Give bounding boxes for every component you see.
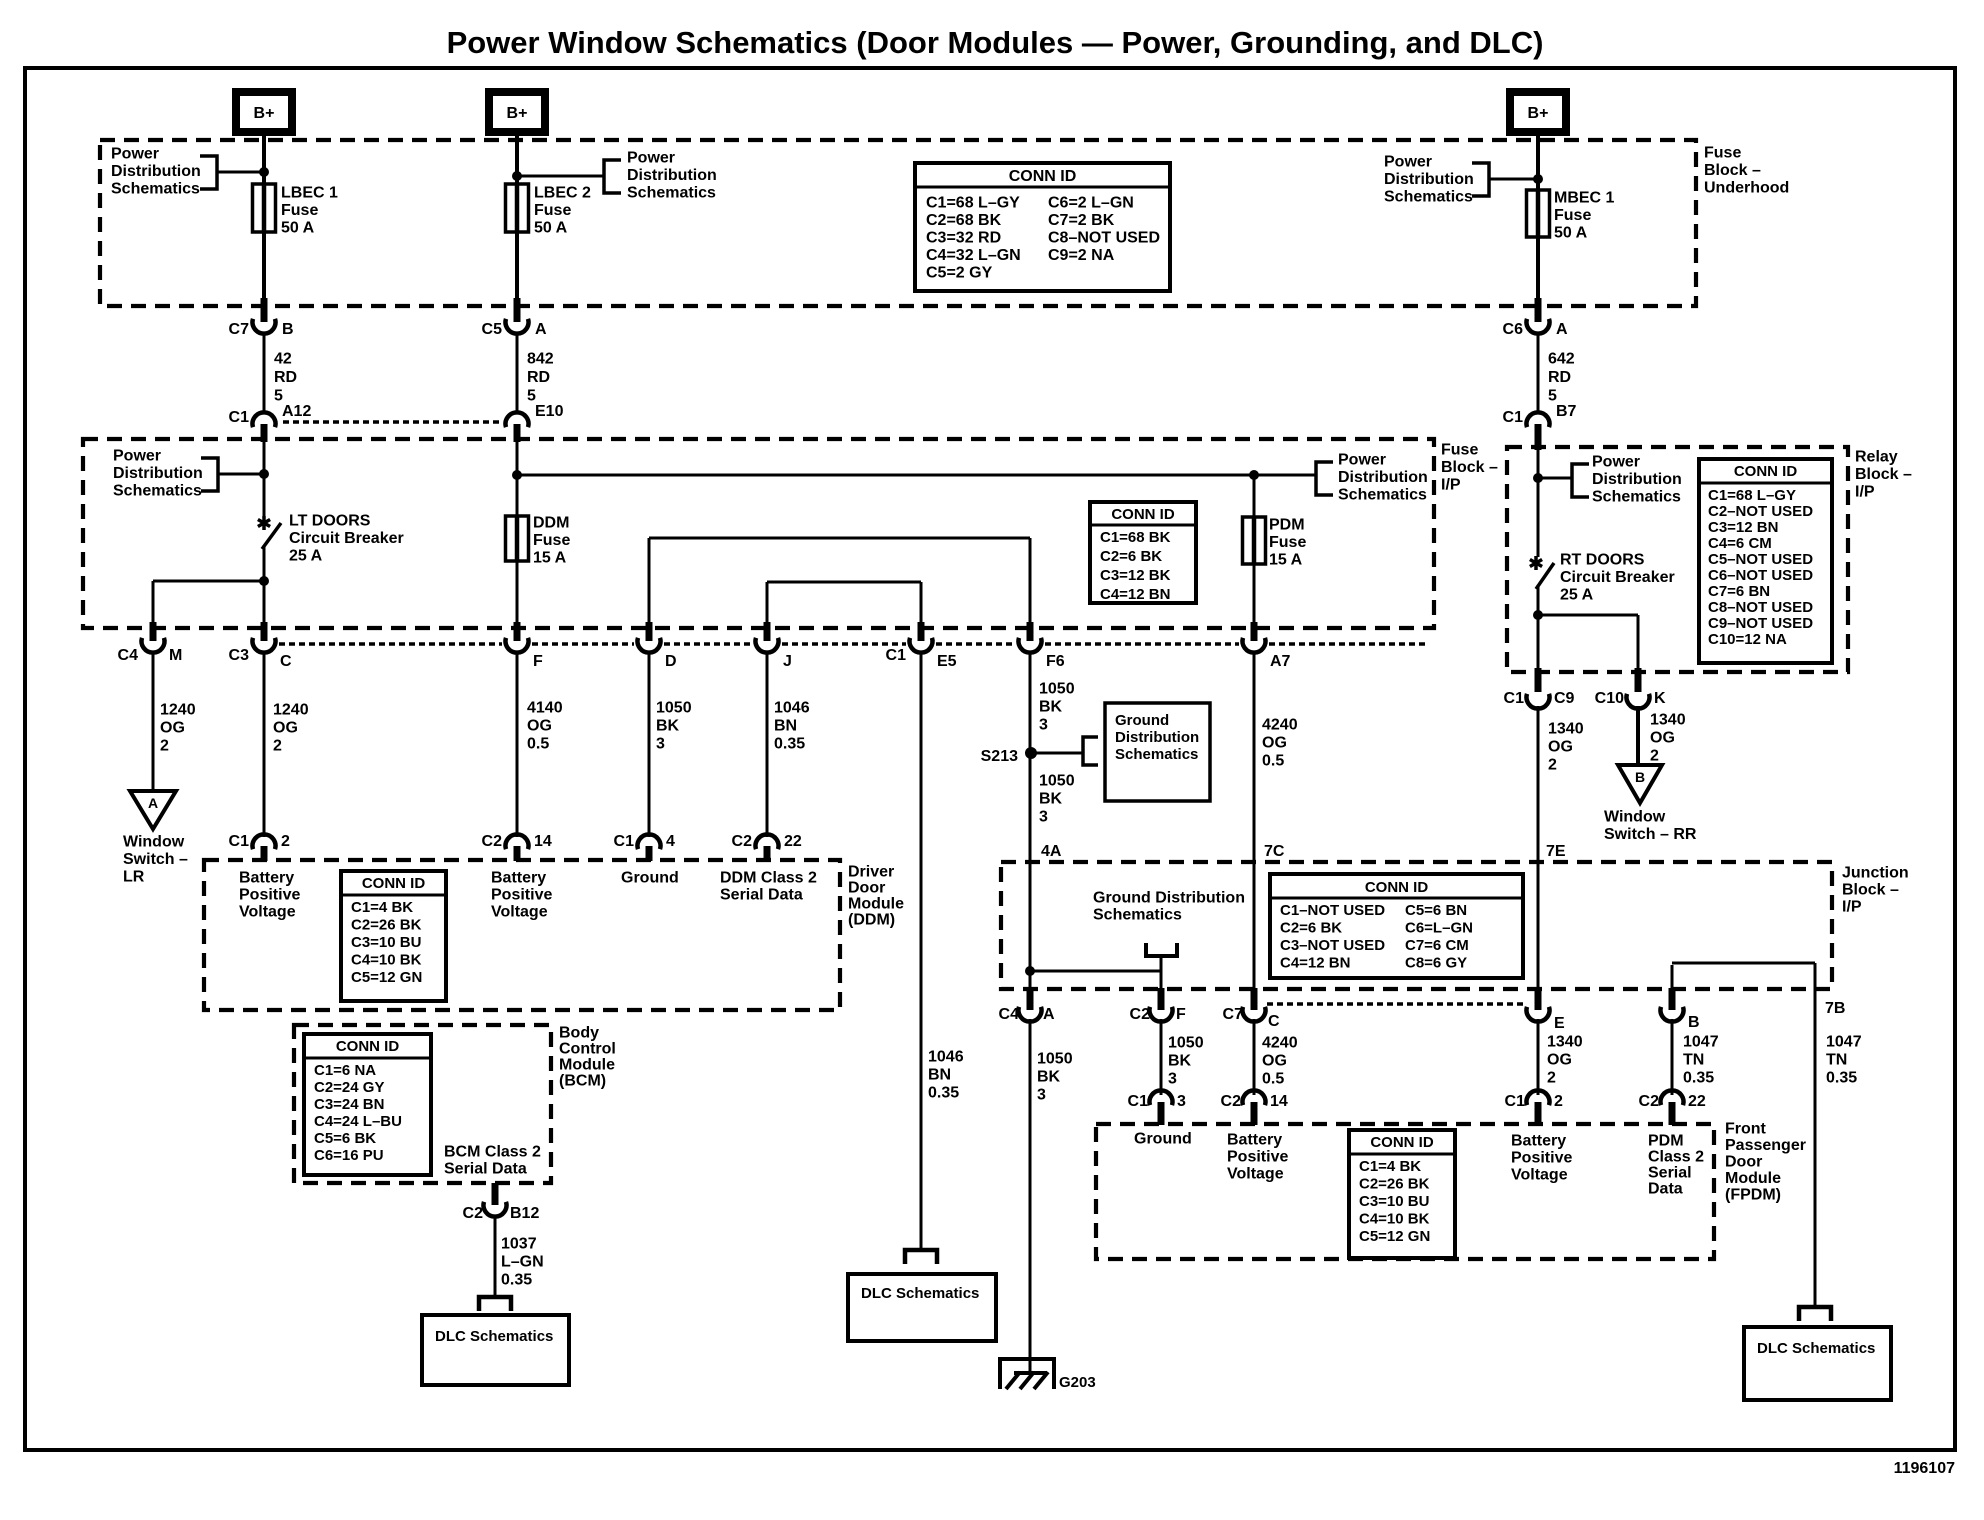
wire window switch LR column (152, 581, 155, 624)
connector F (506, 638, 529, 653)
svg-text:F: F (533, 653, 543, 670)
connector C1/C9 (1526, 694, 1549, 709)
svg-text:C7: C7 (1223, 1006, 1244, 1023)
svg-text:DLC Schematics: DLC Schematics (1757, 1340, 1875, 1357)
svg-text:0.35: 0.35 (1826, 1070, 1857, 1087)
svg-text:2: 2 (273, 738, 282, 755)
svg-text:C3–NOT USED: C3–NOT USED (1280, 937, 1385, 954)
svg-text:Ground: Ground (621, 870, 679, 887)
svg-text:Distribution: Distribution (1592, 471, 1682, 488)
svg-text:OG: OG (1262, 735, 1287, 752)
svg-text:25 A: 25 A (289, 548, 323, 565)
wire S213 to ground distribution bracket (1031, 752, 1083, 755)
svg-text:LT DOORS: LT DOORS (289, 513, 371, 530)
svg-text:C2=24 GY: C2=24 GY (314, 1079, 384, 1096)
wire 4140 OG 0.5 (516, 651, 519, 837)
svg-text:BK: BK (1037, 1069, 1061, 1086)
bracket for right PDS label (1472, 163, 1489, 196)
wire serial loop right leg to connector E5 (920, 582, 923, 624)
connector A7 (1243, 638, 1266, 653)
svg-text:C4=32 L–GN: C4=32 L–GN (926, 247, 1021, 264)
svg-text:Junction: Junction (1842, 865, 1909, 882)
wire LT DOORS column to connector C3 (263, 581, 266, 624)
svg-text:OG: OG (527, 718, 552, 735)
svg-text:5: 5 (527, 388, 536, 405)
svg-text:(FPDM): (FPDM) (1725, 1187, 1781, 1204)
svg-text:Distribution: Distribution (1384, 171, 1474, 188)
wire 1050 BK 3 (DDM ground) (648, 651, 651, 837)
svg-text:Voltage: Voltage (491, 904, 548, 921)
wire B+1 to connector C7 (262, 132, 266, 300)
svg-text:C6=16 PU: C6=16 PU (314, 1147, 384, 1164)
wire RT DOORS to window switch RR column (1538, 614, 1638, 617)
svg-text:Voltage: Voltage (239, 904, 296, 921)
svg-text:A: A (1556, 321, 1568, 338)
bracket for mid PDS label (604, 160, 621, 193)
svg-text:Schematics: Schematics (1093, 907, 1182, 924)
svg-text:Positive: Positive (491, 887, 552, 904)
svg-text:Module: Module (848, 896, 904, 913)
DLC schematics box (left) (422, 1315, 569, 1385)
svg-text:(BCM): (BCM) (559, 1073, 606, 1090)
conn id table relay block (1699, 459, 1832, 663)
svg-text:C2: C2 (463, 1205, 484, 1222)
svg-text:J: J (783, 653, 792, 670)
wire breaker to window switch LR column (153, 580, 264, 583)
svg-text:C4: C4 (999, 1006, 1020, 1023)
svg-text:CONN ID: CONN ID (336, 1038, 400, 1055)
svg-text:15 A: 15 A (533, 550, 567, 567)
svg-text:7E: 7E (1546, 843, 1566, 860)
svg-text:C4=6 CM: C4=6 CM (1708, 535, 1772, 552)
svg-text:1340: 1340 (1650, 712, 1686, 729)
svg-text:Positive: Positive (1227, 1149, 1288, 1166)
svg-text:K: K (1654, 690, 1666, 707)
svg-text:B+: B+ (507, 105, 528, 122)
svg-text:Window: Window (1604, 809, 1666, 826)
svg-text:BN: BN (928, 1067, 951, 1084)
svg-text:Distribution: Distribution (1115, 729, 1199, 746)
svg-text:C1: C1 (1503, 409, 1524, 426)
junction node on LBEC2 column (512, 171, 522, 181)
wire B+2 to connector C5 (515, 132, 519, 300)
svg-text:Fuse: Fuse (281, 202, 318, 219)
svg-text:Power: Power (111, 146, 159, 163)
wire 1046 BN 0.35 (E5 to DLC) (920, 651, 923, 1250)
svg-text:B12: B12 (510, 1205, 539, 1222)
svg-text:1050: 1050 (1037, 1051, 1073, 1068)
svg-text:2: 2 (1650, 748, 1659, 765)
junction node DDM column (512, 470, 522, 480)
wire F column junction (1160, 971, 1163, 990)
wire DDM serial loop horizontal (767, 581, 921, 584)
svg-text:C5=12 GN: C5=12 GN (1359, 1228, 1430, 1245)
svg-text:C1=4 BK: C1=4 BK (351, 899, 413, 916)
off-page connector to DLC (BCM) (479, 1297, 511, 1311)
circuit breaker RT DOORS 25A (1537, 450, 1540, 557)
svg-text:PDM: PDM (1269, 517, 1305, 534)
svg-text:A: A (1043, 1006, 1055, 1023)
connector C1/B7 (1526, 412, 1549, 427)
svg-text:C1=68 L–GY: C1=68 L–GY (1708, 487, 1796, 504)
wire 1046 BN 0.35 (DDM serial) (766, 651, 769, 837)
svg-text:842: 842 (527, 351, 554, 368)
svg-text:C5=6 BN: C5=6 BN (1405, 902, 1467, 919)
svg-text:C6=2 L–GN: C6=2 L–GN (1048, 195, 1134, 212)
wire F6 column through junction block (1029, 864, 1032, 990)
svg-text:I/P: I/P (1842, 899, 1862, 916)
svg-text:C3: C3 (229, 647, 250, 664)
svg-text:1340: 1340 (1548, 721, 1584, 738)
svg-text:RD: RD (1548, 369, 1571, 386)
connector C7/B (253, 319, 276, 334)
svg-text:Ground: Ground (1115, 712, 1169, 729)
svg-text:OG: OG (1548, 739, 1573, 756)
svg-text:E10: E10 (535, 403, 564, 420)
svg-text:C2=6 BK: C2=6 BK (1280, 919, 1342, 936)
window switch LR triangle A (130, 791, 176, 829)
svg-text:C8=6 GY: C8=6 GY (1405, 954, 1467, 971)
svg-text:BK: BK (1168, 1053, 1192, 1070)
svg-text:C2: C2 (1639, 1093, 1660, 1110)
svg-text:C4: C4 (118, 647, 139, 664)
svg-text:C5–NOT USED: C5–NOT USED (1708, 551, 1813, 568)
svg-text:(DDM): (DDM) (848, 912, 895, 929)
wire PDS4 to LT DOORS column (218, 473, 264, 476)
svg-text:A: A (148, 795, 158, 811)
wire 1050 BK 3 (S213 to junction block) (1029, 753, 1032, 864)
bracket for relay PDS label (1572, 464, 1589, 497)
svg-text:D: D (665, 653, 677, 670)
svg-text:C2–NOT USED: C2–NOT USED (1708, 503, 1813, 520)
svg-text:Power Window Schematics (Door: Power Window Schematics (Door Modules — … (447, 25, 1544, 60)
wire C3 column lower (261, 846, 268, 861)
svg-text:C1=68 L–GY: C1=68 L–GY (926, 195, 1020, 212)
svg-text:1046: 1046 (774, 700, 810, 717)
svg-text:Voltage: Voltage (1511, 1167, 1568, 1184)
svg-text:0.35: 0.35 (1683, 1070, 1714, 1087)
svg-text:5: 5 (1548, 388, 1557, 405)
svg-text:I/P: I/P (1441, 477, 1461, 494)
svg-text:C1: C1 (1504, 690, 1525, 707)
junction node below RT DOORS breaker (1533, 610, 1543, 620)
svg-text:LR: LR (123, 869, 145, 886)
svg-text:Schematics: Schematics (1592, 489, 1681, 506)
bus wire DDM column to PDM column and PDS bracket (517, 474, 1316, 477)
svg-text:I/P: I/P (1855, 484, 1875, 501)
svg-text:S213: S213 (981, 748, 1018, 765)
svg-text:Schematics: Schematics (1338, 487, 1427, 504)
svg-text:50 A: 50 A (534, 220, 568, 237)
svg-text:BK: BK (1039, 699, 1063, 716)
svg-text:C5=12 GN: C5=12 GN (351, 969, 422, 986)
svg-text:B: B (282, 321, 294, 338)
svg-text:Distribution: Distribution (627, 167, 717, 184)
svg-text:B: B (1688, 1014, 1700, 1031)
wire 1340 OG 2 (K to window switch RR) (1636, 706, 1640, 765)
svg-text:2: 2 (1548, 757, 1557, 774)
bracket for left PDS label (200, 156, 217, 189)
connector C1/E5 (910, 638, 933, 653)
svg-text:B+: B+ (254, 105, 275, 122)
svg-text:Fuse: Fuse (1554, 207, 1591, 224)
wire 642 RD 5 (1537, 332, 1540, 414)
connector E10 (506, 412, 529, 427)
svg-text:Power: Power (627, 150, 675, 167)
svg-text:B+: B+ (1528, 105, 1549, 122)
svg-text:Schematics: Schematics (1384, 189, 1473, 206)
svg-text:C3=12 BK: C3=12 BK (1100, 567, 1171, 584)
svg-text:0.5: 0.5 (527, 736, 549, 753)
svg-text:C1: C1 (1505, 1093, 1526, 1110)
svg-text:C4=10 BK: C4=10 BK (351, 951, 422, 968)
bracket for I/P left PDS label (201, 458, 218, 491)
svg-text:Serial: Serial (1648, 1165, 1692, 1182)
wire E column junction (1537, 864, 1540, 990)
svg-text:3: 3 (1039, 809, 1048, 826)
wire PDM fuse to connector A7 (1253, 564, 1256, 624)
svg-text:DLC Schematics: DLC Schematics (435, 1328, 553, 1345)
svg-text:C6: C6 (1503, 321, 1524, 338)
dotted net row3 connectors (279, 642, 502, 646)
junction node LT DOORS column (259, 469, 269, 479)
fuse block underhood dashed box (100, 140, 1696, 306)
svg-text:CONN ID: CONN ID (362, 875, 426, 892)
svg-text:Ground: Ground (1134, 1131, 1192, 1148)
svg-text:Battery: Battery (239, 870, 294, 887)
DLC schematics box (right) (1744, 1327, 1891, 1400)
svg-text:Distribution: Distribution (113, 465, 203, 482)
connector C2/22 (DDM serial) (756, 834, 779, 849)
svg-text:1240: 1240 (273, 702, 309, 719)
svg-text:C3=10 BU: C3=10 BU (351, 934, 421, 951)
svg-text:3: 3 (1039, 717, 1048, 734)
wire FPDM serial loop horizontal (1672, 962, 1815, 965)
wire 7B drop to DLC (1814, 963, 1817, 1307)
svg-text:C2: C2 (1221, 1093, 1242, 1110)
circuit breaker LT DOORS 25A (263, 442, 266, 517)
junction node below LT DOORS breaker (259, 576, 269, 586)
svg-text:BCM Class 2: BCM Class 2 (444, 1144, 541, 1161)
svg-text:Block –: Block – (1855, 466, 1912, 483)
svg-text:14: 14 (1270, 1093, 1288, 1110)
svg-text:C1–NOT USED: C1–NOT USED (1280, 902, 1385, 919)
svg-text:C3=24 BN: C3=24 BN (314, 1096, 384, 1113)
svg-text:C: C (1268, 1013, 1280, 1030)
svg-text:C9–NOT USED: C9–NOT USED (1708, 615, 1813, 632)
svg-text:C8–NOT USED: C8–NOT USED (1048, 230, 1160, 247)
svg-text:C7=2 BK: C7=2 BK (1048, 212, 1115, 229)
B+ terminal 1 (236, 92, 292, 132)
driver door module dashed box (204, 860, 840, 1010)
connector F6 (1019, 638, 1042, 653)
connector D (638, 638, 661, 653)
svg-text:1046: 1046 (928, 1049, 964, 1066)
svg-text:C5=2 GY: C5=2 GY (926, 265, 993, 282)
svg-text:Body: Body (559, 1025, 599, 1042)
svg-text:CONN ID: CONN ID (1111, 506, 1175, 523)
svg-text:3: 3 (656, 736, 665, 753)
svg-text:1196107: 1196107 (1894, 1460, 1956, 1477)
svg-text:C5=6 BK: C5=6 BK (314, 1130, 376, 1147)
wire 1050 BK 3 (F pin) (1160, 1019, 1163, 1095)
svg-text:Control: Control (559, 1041, 616, 1058)
wire 1050 BK 3 (A to G203) (1029, 1019, 1032, 1374)
svg-text:Class 2: Class 2 (1648, 1149, 1704, 1166)
junction node on MBEC1 column (1533, 174, 1543, 184)
connector C2/14 (DDM battery) (506, 834, 529, 849)
wire 1047 TN 0.35 (B pin) (1671, 1019, 1674, 1095)
svg-text:E5: E5 (937, 653, 957, 670)
svg-text:C2: C2 (482, 833, 503, 850)
svg-text:Block –: Block – (1441, 459, 1498, 476)
svg-text:DDM: DDM (533, 515, 569, 532)
svg-text:B7: B7 (1556, 403, 1577, 420)
svg-text:Fuse: Fuse (533, 532, 570, 549)
svg-text:50 A: 50 A (1554, 225, 1588, 242)
svg-text:C4=10 BK: C4=10 BK (1359, 1210, 1430, 1227)
svg-text:4: 4 (666, 833, 675, 850)
svg-text:C1=68 BK: C1=68 BK (1100, 529, 1171, 546)
svg-text:C3=32 RD: C3=32 RD (926, 230, 1001, 247)
svg-text:Door: Door (848, 880, 885, 897)
svg-text:Relay: Relay (1855, 449, 1898, 466)
svg-text:F: F (1176, 1006, 1186, 1023)
conn id table BCM (304, 1034, 431, 1175)
svg-text:C1=4 BK: C1=4 BK (1359, 1158, 1421, 1175)
wire PDS2 to LBEC2 column (517, 175, 604, 178)
fuse PDM 15A (1253, 475, 1256, 517)
connector C1/2 (DDM battery) (253, 834, 276, 849)
svg-text:Schematics: Schematics (111, 181, 200, 198)
wire RT DOORS column to connector C9 (1537, 615, 1540, 668)
conn id table underhood (915, 163, 1170, 291)
svg-text:Power: Power (113, 448, 161, 465)
fuse MBEC 1 50A (1527, 190, 1550, 237)
DLC schematics box (middle) (848, 1274, 996, 1341)
window switch RR triangle B (1618, 765, 1662, 803)
wire serial loop left leg to connector J (766, 582, 769, 624)
svg-text:Module: Module (1725, 1170, 1781, 1187)
svg-text:C1: C1 (1128, 1093, 1149, 1110)
svg-text:Block –: Block – (1704, 162, 1761, 179)
svg-text:Fuse: Fuse (1441, 442, 1478, 459)
wire junction ground bus (1030, 970, 1161, 973)
svg-text:C1: C1 (229, 409, 250, 426)
svg-text:OG: OG (273, 720, 298, 737)
svg-text:Battery: Battery (1227, 1132, 1282, 1149)
wire 842 RD 5 (516, 332, 519, 414)
svg-text:C7: C7 (229, 321, 250, 338)
ground distribution stub symbol (1146, 943, 1177, 956)
svg-text:Fuse: Fuse (1269, 534, 1306, 551)
svg-text:Fuse: Fuse (1704, 145, 1741, 162)
svg-text:DDM Class 2: DDM Class 2 (720, 870, 817, 887)
connector C2/F (1150, 1007, 1173, 1022)
svg-text:14: 14 (534, 833, 552, 850)
svg-text:Circuit Breaker: Circuit Breaker (1560, 569, 1675, 586)
wire 1050 BK 3 (F6 to S213) (1029, 651, 1032, 753)
svg-text:4140: 4140 (527, 700, 563, 717)
wire ground loop left leg to connector D (648, 538, 651, 624)
wire DDM fuse to connector F (516, 561, 519, 624)
svg-text:Power: Power (1384, 154, 1432, 171)
svg-text:1047: 1047 (1683, 1034, 1719, 1051)
relay block I/P dashed box (1507, 447, 1848, 672)
junction block I/P dashed box (1001, 862, 1832, 989)
svg-text:50 A: 50 A (281, 220, 315, 237)
svg-text:M: M (169, 647, 182, 664)
junction node ground bus (1025, 966, 1035, 976)
svg-text:Switch –: Switch – (123, 851, 188, 868)
connector C1/A12 (253, 412, 276, 427)
svg-text:4A: 4A (1041, 843, 1062, 860)
front passenger door module dashed box (1096, 1124, 1714, 1259)
svg-text:1050: 1050 (1039, 681, 1075, 698)
svg-text:CONN ID: CONN ID (1370, 1134, 1434, 1151)
svg-text:C7=6 BN: C7=6 BN (1708, 583, 1770, 600)
wire B+3 to connector C6 (1536, 132, 1540, 300)
svg-text:A7: A7 (1270, 653, 1291, 670)
fuse LBEC 2 50A (506, 184, 529, 232)
svg-text:1050: 1050 (656, 700, 692, 717)
svg-text:C4=24 L–BU: C4=24 L–BU (314, 1113, 402, 1130)
svg-text:Battery: Battery (491, 870, 546, 887)
wire PDS1 to LBEC1 column (217, 171, 264, 174)
svg-text:C9=2 NA: C9=2 NA (1048, 247, 1115, 264)
svg-text:Serial Data: Serial Data (720, 887, 803, 904)
svg-text:F6: F6 (1046, 653, 1065, 670)
svg-text:Data: Data (1648, 1181, 1683, 1198)
svg-text:25 A: 25 A (1560, 587, 1594, 604)
wire 1037 L-GN 0.35 (494, 1215, 497, 1297)
svg-text:C4=12 BN: C4=12 BN (1100, 586, 1170, 603)
svg-text:C1: C1 (229, 833, 250, 850)
conn id table junction block (1270, 874, 1523, 978)
svg-text:Door: Door (1725, 1154, 1762, 1171)
svg-text:2: 2 (1547, 1070, 1556, 1087)
svg-text:0.5: 0.5 (1262, 1071, 1284, 1088)
svg-text:Power: Power (1592, 454, 1640, 471)
wire 42 RD 5 (263, 332, 266, 414)
svg-text:C1: C1 (886, 647, 907, 664)
connector C7/C (1243, 1007, 1266, 1022)
svg-text:1047: 1047 (1826, 1034, 1862, 1051)
svg-text:E: E (1554, 1015, 1565, 1032)
svg-text:4240: 4240 (1262, 1035, 1298, 1052)
fuse block I/P dashed box (83, 439, 1434, 628)
off-page connector to DLC (E5) (905, 1250, 937, 1264)
dotted net A12-E10 (283, 420, 503, 424)
svg-text:Battery: Battery (1511, 1133, 1566, 1150)
svg-text:3: 3 (1177, 1093, 1186, 1110)
svg-text:Module: Module (559, 1057, 615, 1074)
svg-text:CONN ID: CONN ID (1734, 463, 1798, 480)
svg-text:OG: OG (160, 720, 185, 737)
wire B column junction (1671, 965, 1674, 990)
svg-text:C6–NOT USED: C6–NOT USED (1708, 567, 1813, 584)
svg-text:Front: Front (1725, 1121, 1767, 1138)
svg-text:0.35: 0.35 (928, 1085, 959, 1102)
connector C4/A (1019, 1007, 1042, 1022)
svg-text:C1: C1 (614, 833, 635, 850)
svg-text:2: 2 (1554, 1093, 1563, 1110)
wire 1240 OG 2 (window switch LR) (152, 651, 155, 791)
B+ terminal 3 (1510, 92, 1566, 132)
connector C1/2 (FPDM) (1535, 1102, 1542, 1125)
wire ground loop right leg to connector F6 (1029, 538, 1032, 624)
conn id table fuse block I/P (1090, 502, 1196, 603)
